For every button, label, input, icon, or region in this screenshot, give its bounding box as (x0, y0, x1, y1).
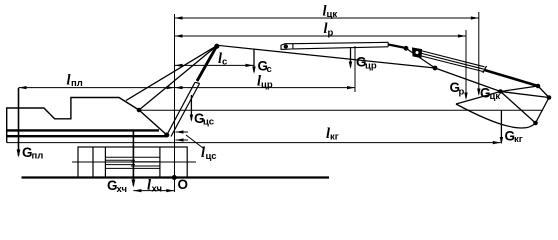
svg-text:цр: цр (261, 80, 273, 91)
svg-text:р: р (328, 28, 334, 39)
svg-text:l: l (67, 73, 71, 89)
svg-text:кг: кг (330, 132, 339, 143)
svg-text:цс: цс (206, 151, 217, 162)
svg-text:пл: пл (71, 78, 83, 89)
svg-text:пл: пл (32, 151, 44, 162)
svg-text:с: с (222, 57, 227, 68)
svg-text:с: с (267, 64, 272, 75)
svg-text:цс: цс (203, 117, 214, 128)
svg-text:хч: хч (152, 184, 163, 195)
svg-text:цк: цк (327, 9, 338, 20)
svg-text:р: р (459, 87, 465, 98)
svg-text:O: O (178, 177, 189, 192)
svg-text:хч: хч (117, 184, 128, 195)
svg-text:кг: кг (514, 134, 523, 145)
svg-text:l: l (201, 145, 205, 161)
svg-text:цр: цр (365, 61, 377, 72)
svg-text:l: l (147, 178, 151, 194)
svg-text:цк: цк (490, 91, 501, 102)
